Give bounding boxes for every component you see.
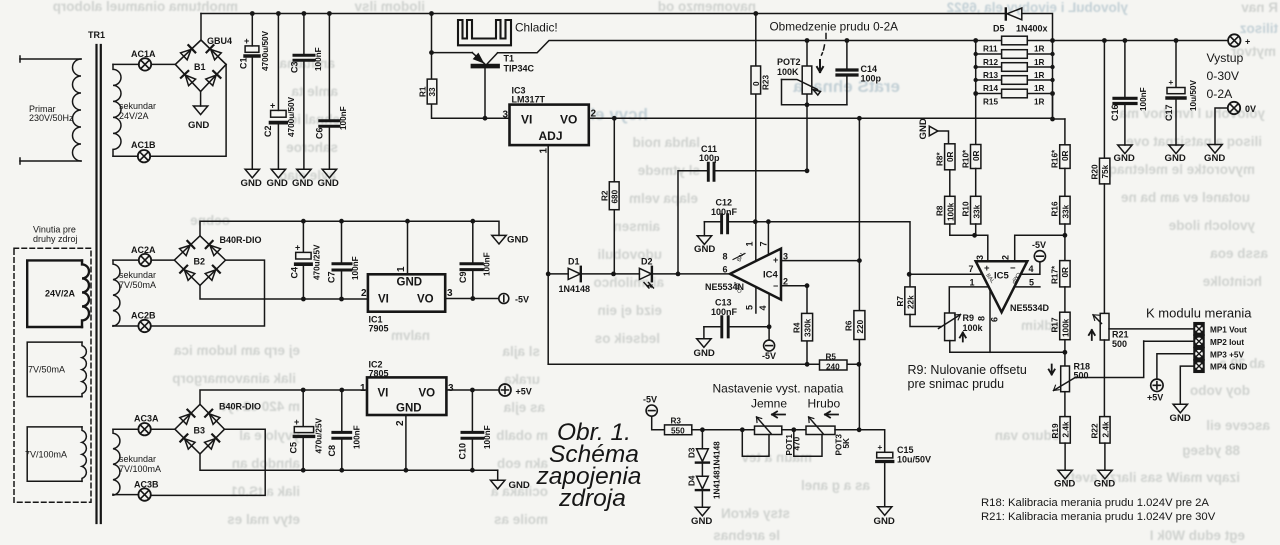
- capacitor C8 100nF: [327, 390, 362, 470]
- IC4 pin 1 stub: [745, 222, 756, 261]
- svg-text:R21: R21: [1112, 330, 1129, 340]
- wire R18 wiper line to MP2: [1144, 340, 1194, 342]
- ground end of B2 rail: [492, 235, 529, 246]
- ground at MP4: [1170, 404, 1191, 424]
- svg-text:D2: D2: [641, 257, 653, 267]
- svg-text:1: 1: [745, 241, 755, 246]
- capacitor C4 470u/25V: [290, 221, 322, 299]
- winding 7V/50mA: [27, 342, 86, 397]
- capacitor C2 4700u/50V: [263, 14, 296, 170]
- svg-text:C15: C15: [897, 445, 914, 455]
- svg-text:5: 5: [745, 305, 755, 310]
- wire top rail (unregulated +): [201, 13, 1006, 15]
- svg-text:C7: C7: [327, 271, 337, 283]
- svg-text:3: 3: [783, 252, 788, 262]
- svg-text:C10: C10: [458, 443, 468, 460]
- svg-text:GND: GND: [1114, 153, 1135, 164]
- svg-text:le arebnas: le arebnas: [713, 528, 780, 543]
- svg-text:100p: 100p: [699, 153, 720, 163]
- svg-text:3: 3: [448, 383, 454, 394]
- wire IC3 VO pin2 to output sense line: [589, 117, 1053, 119]
- svg-text:0V: 0V: [1245, 104, 1256, 114]
- svg-text:100nF: 100nF: [339, 106, 348, 130]
- svg-text:izapv maiW sas ilarzo avets: izapv maiW sas ilarzo avets: [1063, 470, 1240, 485]
- svg-text:C4: C4: [290, 267, 300, 279]
- wire IC3 ADJ pin1 column down: [547, 145, 549, 364]
- resistor R10 33k: [962, 169, 982, 225]
- wire shunt bottom to sense line: [1053, 94, 1065, 120]
- svg-text:eizd ej ein: eizd ej ein: [597, 303, 662, 318]
- svg-text:R17: R17: [1051, 317, 1060, 332]
- svg-text:D1: D1: [568, 257, 580, 267]
- svg-text:7: 7: [969, 264, 974, 274]
- svg-text:R15: R15: [983, 98, 998, 107]
- svg-text:nalvm: nalvm: [391, 328, 430, 343]
- svg-text:GND: GND: [267, 178, 288, 189]
- supply +5V at MP3: [1147, 379, 1163, 402]
- svg-text:aimsen: aimsen: [613, 219, 660, 234]
- svg-text:C13: C13: [715, 298, 732, 308]
- secondary winding sekundar 7V/50mA: [113, 260, 156, 326]
- svg-text:R6: R6: [845, 320, 854, 331]
- svg-text:NE5534D: NE5534D: [1010, 303, 1050, 313]
- resistor R12 1R: [976, 50, 1053, 67]
- svg-text:GND: GND: [241, 178, 262, 189]
- trimmer R9 100k: [910, 290, 1065, 352]
- transformer TR1 label: [88, 30, 105, 40]
- svg-text:R8: R8: [936, 205, 945, 216]
- svg-text:m obalb: m obalb: [496, 428, 548, 443]
- connector MP1: [1194, 323, 1247, 335]
- capacitor C6 100nF: [315, 14, 349, 170]
- svg-text:B40R-DIO: B40R-DIO: [220, 235, 262, 245]
- svg-text:1R: 1R: [1034, 58, 1045, 67]
- ground under C1: [241, 169, 262, 189]
- secondary winding sekundar 7V/100mA: [113, 429, 161, 495]
- svg-text:Chladic!: Chladic!: [515, 21, 558, 35]
- wire T1 collector to main rail: [498, 41, 1002, 53]
- svg-text:4700u/50V: 4700u/50V: [261, 30, 270, 71]
- svg-text:2.4k: 2.4k: [1101, 421, 1110, 437]
- supply terminal -5V (IC1 output): [499, 294, 529, 305]
- svg-text:GND: GND: [318, 178, 339, 189]
- svg-text:+: +: [1245, 37, 1250, 47]
- svg-text:100nF: 100nF: [314, 47, 323, 71]
- svg-text:GND: GND: [188, 120, 209, 131]
- caption R18/R21 kalibracia: [981, 497, 1216, 523]
- svg-text:GND: GND: [1054, 479, 1075, 490]
- resistor R22 2.4k: [1091, 417, 1111, 471]
- svg-text:doy vobo: doy vobo: [1190, 383, 1250, 398]
- svg-text:1R: 1R: [1034, 98, 1045, 107]
- svg-text:anutama: anutama: [279, 56, 335, 71]
- winding 24V/2A (second source): [27, 260, 89, 327]
- svg-text:7V/50mA: 7V/50mA: [119, 280, 156, 290]
- svg-text:33k: 33k: [972, 204, 981, 218]
- svg-text:GND: GND: [1094, 479, 1115, 490]
- svg-text:VI: VI: [378, 388, 389, 400]
- resistor R16* 0R: [1051, 119, 1071, 168]
- svg-text:2: 2: [395, 420, 406, 426]
- label Jemne: [751, 397, 787, 411]
- svg-text:MP1 Vout: MP1 Vout: [1210, 326, 1247, 335]
- svg-text:5: 5: [1029, 278, 1034, 288]
- caption R9 nulovanie offsetu: [908, 363, 1027, 391]
- svg-text:C3: C3: [290, 61, 300, 73]
- svg-text:1R: 1R: [1034, 45, 1045, 54]
- resistor R17 100k: [1051, 287, 1071, 340]
- svg-text:GND: GND: [1165, 153, 1186, 164]
- svg-text:8: 8: [723, 252, 728, 262]
- svg-text:+: +: [1169, 78, 1174, 87]
- svg-text:GND: GND: [694, 348, 715, 359]
- ground under C6: [318, 169, 339, 189]
- svg-text:C8: C8: [327, 445, 337, 457]
- svg-text:zdroja: zdroja: [558, 485, 626, 512]
- svg-text:500: 500: [1074, 371, 1089, 381]
- svg-text:R1: R1: [419, 86, 428, 97]
- svg-text:R23: R23: [762, 75, 771, 90]
- svg-text:R nav: R nav: [1241, 0, 1278, 15]
- svg-text:100nF: 100nF: [483, 425, 492, 449]
- svg-text:T1: T1: [504, 54, 515, 64]
- wire main rail to output terminal: [1027, 40, 1227, 42]
- svg-text:VI: VI: [521, 113, 532, 127]
- svg-text:egt edub W0k I: egt edub W0k I: [1150, 528, 1245, 543]
- connector MP4: [1194, 360, 1247, 372]
- svg-text:R10: R10: [962, 201, 971, 216]
- svg-text:C1: C1: [239, 57, 249, 69]
- sideways ground for R8*: [918, 118, 949, 144]
- svg-text:4: 4: [758, 305, 768, 310]
- svg-text:MP4 GND: MP4 GND: [1210, 363, 1247, 372]
- capacitor C5 470u/25V: [289, 390, 324, 470]
- output 0V terminal: [1228, 102, 1256, 114]
- ground for C13: [694, 327, 715, 359]
- regulator IC3 LM317T: [503, 86, 597, 154]
- svg-text:R17*: R17*: [1051, 265, 1060, 284]
- svg-text:1N4148: 1N4148: [713, 470, 722, 499]
- connector MP3: [1194, 348, 1244, 360]
- svg-text:GND: GND: [1170, 413, 1191, 424]
- svg-text:R13: R13: [983, 71, 998, 80]
- svg-text:1: 1: [970, 278, 975, 288]
- svg-text:MP2 Iout: MP2 Iout: [1210, 338, 1244, 347]
- svg-text:-5V: -5V: [762, 351, 776, 361]
- svg-text:C14: C14: [861, 64, 878, 74]
- label Obmedzenie prudu 0-2A: [770, 20, 899, 34]
- IC5 pin4 wire to -5V: [1021, 262, 1040, 274]
- svg-text:6: 6: [723, 265, 728, 275]
- svg-text:−: −: [773, 281, 778, 291]
- bridge rectifier B2 B40R-DIO: [174, 235, 261, 285]
- svg-text:1N4148: 1N4148: [713, 441, 722, 470]
- svg-text:ilisoq a natsiznat ove: ilisoq a natsiznat ove: [1126, 134, 1262, 149]
- op-amp IC4 NE5534N: [705, 249, 781, 300]
- svg-text:VO: VO: [560, 113, 577, 127]
- svg-text:7V/50mA: 7V/50mA: [28, 365, 65, 375]
- capacitor C17 10u/50V: [1164, 41, 1198, 146]
- svg-text:R9: Nulovanie offsetu: R9: Nulovanie offsetu: [908, 363, 1027, 377]
- svg-text:sekundar: sekundar: [119, 101, 156, 111]
- potentiometer POT2 100K: [777, 41, 847, 171]
- wire AC3A to B3: [151, 428, 175, 430]
- supply -5V at IC5 pin4: [1032, 240, 1046, 262]
- svg-text:R12: R12: [983, 58, 998, 67]
- resistor R4 330k: [793, 286, 813, 365]
- svg-text:TR1: TR1: [88, 30, 105, 40]
- resistor R16 33k: [1051, 168, 1071, 224]
- svg-text:TIP34C: TIP34C: [504, 64, 535, 74]
- svg-text:R16: R16: [1051, 201, 1060, 216]
- resistor R2 680: [601, 118, 620, 274]
- IC4 pin 7 stub: [759, 222, 769, 255]
- secondary winding sekundar 24V/2A: [113, 64, 156, 156]
- wire R16 bottom to IC5 pin2: [1015, 224, 1065, 261]
- ground under C17: [1165, 145, 1186, 164]
- svg-text:-5V: -5V: [515, 295, 529, 305]
- svg-text:yvoloch ilode: yvoloch ilode: [1168, 218, 1255, 233]
- wire MP4 to ground: [1180, 366, 1194, 404]
- resistor R23 0: [751, 14, 771, 222]
- svg-text:elapa velm: elapa velm: [629, 191, 698, 206]
- svg-text:R20: R20: [1090, 164, 1099, 179]
- IC4 pin 3 wire to current sense: [781, 118, 859, 261]
- svg-text:ledseik os: ledseik os: [595, 331, 660, 346]
- svg-text:0R: 0R: [1061, 267, 1070, 278]
- resistor R15 1R: [976, 89, 1053, 106]
- resistor R14 1R: [976, 76, 1053, 93]
- ground under C3: [292, 169, 313, 189]
- svg-text:MP3 +5V: MP3 +5V: [1210, 350, 1244, 359]
- svg-text:yvylo e al: yvylo e al: [239, 428, 300, 443]
- svg-text:Hrubo: Hrubo: [808, 397, 841, 411]
- svg-text:mnohtuma oinamuel aloborp: mnohtuma oinamuel aloborp: [53, 0, 238, 14]
- svg-text:0R: 0R: [1061, 150, 1070, 161]
- svg-text:3: 3: [503, 110, 509, 121]
- IC4 pin 4 wire: [758, 294, 769, 341]
- svg-text:POT2: POT2: [777, 57, 801, 67]
- svg-text:pre snimac prudu: pre snimac prudu: [908, 377, 1005, 391]
- svg-text:100nF: 100nF: [711, 207, 738, 217]
- label Nastavenie vyst. napatia: [713, 382, 844, 396]
- wire B1 top corner to top rail: [200, 14, 202, 41]
- svg-text:GND: GND: [396, 403, 422, 415]
- svg-text:Nastavenie vyst. napatia: Nastavenie vyst. napatia: [713, 382, 844, 396]
- svg-text:100p: 100p: [861, 74, 882, 84]
- svg-text:100k: 100k: [947, 202, 956, 221]
- connector MP2: [1194, 335, 1244, 347]
- svg-text:0R: 0R: [946, 151, 955, 162]
- diode D5 1N400x: [993, 8, 1053, 119]
- diode D3 1N4148: [688, 430, 722, 470]
- resistor R7 22k: [896, 274, 916, 314]
- svg-text:+: +: [244, 36, 249, 46]
- svg-text:+: +: [773, 255, 778, 265]
- svg-text:myvorotke le meletnaq: myvorotke le meletnaq: [1109, 162, 1255, 177]
- svg-text:VO: VO: [419, 388, 436, 400]
- svg-text:D4: D4: [688, 475, 697, 486]
- caption Obr. 1. Schema zapojenia zdroja: [536, 419, 642, 512]
- resistor R13 1R: [976, 63, 1053, 80]
- svg-text:1R: 1R: [1034, 71, 1045, 80]
- svg-text:Vinutia pre: Vinutia pre: [33, 225, 76, 235]
- svg-text:470u/25V: 470u/25V: [313, 244, 322, 280]
- dashed pointer to POT2: [817, 34, 826, 73]
- svg-text:3: 3: [975, 255, 985, 260]
- label K modulu merania: [1146, 306, 1252, 321]
- IC4 pin 2 wire: [781, 277, 807, 287]
- svg-text:2.4k: 2.4k: [1062, 421, 1071, 437]
- svg-text:100nF: 100nF: [483, 252, 492, 276]
- resistor R20 75k: [1090, 41, 1110, 184]
- terminal AC1A: [131, 49, 156, 71]
- svg-text:R19: R19: [1051, 423, 1060, 438]
- wire B2 right corner to AC2B: [151, 260, 265, 326]
- terminal AC3B: [134, 480, 159, 501]
- capacitor C14 100p: [837, 41, 882, 105]
- svg-text:GND: GND: [1204, 153, 1225, 164]
- svg-text:B40R-DIO: B40R-DIO: [219, 402, 261, 412]
- svg-text:C6: C6: [315, 127, 325, 139]
- capacitor C13 100nF: [704, 298, 769, 337]
- resistor R1 33: [419, 53, 510, 119]
- svg-text:C5: C5: [289, 442, 299, 454]
- IC5 pin1 wire to R9: [949, 287, 989, 313]
- dashed box Vinutia pre druhy zdroj: [14, 248, 91, 502]
- svg-text:100nF: 100nF: [351, 256, 360, 280]
- svg-text:GND: GND: [694, 244, 715, 255]
- svg-text:100k: 100k: [1062, 318, 1071, 337]
- bridge rectifier B3 B40R-DIO: [175, 402, 261, 454]
- svg-text:680: 680: [610, 189, 619, 203]
- svg-text:+5V: +5V: [1147, 393, 1163, 403]
- label Chladic!: [515, 21, 558, 35]
- svg-text:33: 33: [428, 87, 437, 97]
- svg-text:220: 220: [856, 319, 865, 333]
- terminal AC3A: [134, 414, 159, 436]
- svg-text:2: 2: [1001, 255, 1011, 260]
- svg-text:moile as: moile as: [494, 512, 548, 527]
- svg-text:C17: C17: [1164, 104, 1174, 121]
- ground under R22: [1094, 470, 1115, 489]
- wire top-rail drop to T1 emitter: [431, 14, 433, 53]
- svg-text:uotanel ev am ba ne: uotanel ev am ba ne: [1120, 190, 1250, 205]
- svg-text:C16: C16: [1110, 104, 1120, 121]
- svg-text:sl ajla: sl ajla: [502, 344, 540, 359]
- svg-text:GND: GND: [507, 235, 528, 246]
- capacitor C9 100nF: [458, 221, 492, 298]
- wire IC2 VO to +5V terminal: [446, 389, 499, 391]
- terminal AC2A: [131, 245, 156, 266]
- svg-text:R2: R2: [601, 190, 610, 201]
- svg-text:Obmedzenie prudu 0-2A: Obmedzenie prudu 0-2A: [770, 20, 899, 34]
- svg-text:GND: GND: [918, 118, 929, 139]
- svg-text:GND: GND: [509, 480, 530, 491]
- svg-text:75k: 75k: [1101, 164, 1110, 178]
- wire AC1B to B1 right corner: [150, 64, 226, 156]
- svg-text:R22: R22: [1091, 423, 1100, 438]
- resistor R10* 0R: [962, 94, 982, 169]
- label Hrubo: [808, 397, 841, 411]
- svg-text:hcintolke: hcintolke: [1202, 274, 1262, 289]
- supply -5V at IC4 pin4: [762, 340, 776, 361]
- svg-text:0-30V: 0-30V: [1207, 69, 1240, 83]
- svg-text:1N4148: 1N4148: [559, 284, 591, 294]
- svg-text:4: 4: [1029, 264, 1034, 274]
- wire B3 bottom to GND line: [200, 454, 498, 470]
- svg-text:240: 240: [826, 363, 840, 372]
- ground under R19: [1054, 470, 1075, 489]
- svg-text:GND: GND: [397, 277, 423, 289]
- svg-text:24V/2A: 24V/2A: [119, 111, 149, 121]
- svg-text:C9: C9: [458, 271, 468, 283]
- svg-text:R7: R7: [896, 296, 905, 307]
- transistor T1 TIP34C: [432, 53, 535, 119]
- resistor R11 1R: [983, 36, 1045, 53]
- svg-text:0R: 0R: [972, 150, 981, 161]
- svg-text:R11: R11: [983, 45, 998, 54]
- ground under 0V: [1204, 145, 1225, 165]
- svg-text:1: 1: [396, 266, 407, 272]
- svg-text:amle ta: amle ta: [291, 84, 338, 99]
- svg-text:sekundar: sekundar: [119, 270, 156, 280]
- regulator IC2 7805: [360, 360, 454, 427]
- wire R21 wiper to MP1: [1109, 328, 1194, 330]
- resistor R5 240: [548, 353, 859, 372]
- svg-text:0-2A: 0-2A: [1207, 87, 1234, 101]
- svg-text:5K: 5K: [842, 438, 851, 449]
- svg-text:7V/100mA: 7V/100mA: [25, 450, 67, 460]
- svg-text:stsy ekroN: stsy ekroN: [721, 506, 790, 521]
- wire B3 top to IC2 VI: [200, 390, 367, 404]
- wire AC1A to B1 left corner: [151, 63, 175, 65]
- IC5 pin5 stub: [1015, 286, 1040, 288]
- svg-text:R4: R4: [793, 322, 802, 333]
- svg-text:B2: B2: [194, 257, 206, 267]
- svg-text:ilodom ilsv: ilodom ilsv: [354, 0, 425, 14]
- capacitor C11 100p: [678, 144, 807, 274]
- ground under C15: [874, 507, 895, 527]
- capacitor C7 100nF: [327, 221, 361, 299]
- svg-text:550: 550: [671, 427, 685, 436]
- svg-text:IC5: IC5: [994, 271, 1010, 282]
- svg-text:1N400x: 1N400x: [1016, 24, 1048, 34]
- capacitor C16 100nF: [1110, 41, 1148, 146]
- resistor R6 220: [845, 261, 865, 430]
- svg-text:2: 2: [361, 288, 367, 299]
- svg-text:100K: 100K: [777, 67, 799, 77]
- svg-text:VO: VO: [417, 294, 434, 306]
- svg-text:7: 7: [759, 241, 769, 246]
- svg-text:VI: VI: [378, 294, 389, 306]
- capacitor C1 4700u/50V: [239, 14, 271, 170]
- svg-text:lahda noid: lahda noid: [633, 135, 701, 150]
- wire R8/R10 bottoms to IC5 pin3: [950, 224, 988, 261]
- svg-text:24V/2A: 24V/2A: [45, 289, 76, 299]
- bridge rectifier B1 GBU4: [175, 36, 232, 92]
- svg-text:1R: 1R: [1034, 84, 1045, 93]
- supply terminal +5V (IC2 output): [499, 384, 532, 397]
- svg-text:R10*: R10*: [962, 149, 971, 168]
- IC4 pin 5 stub: [745, 287, 756, 313]
- svg-text:as a g anel: as a g anel: [801, 478, 870, 493]
- svg-text:R5: R5: [826, 353, 837, 362]
- diode D1 1N4148: [559, 257, 591, 295]
- svg-text:K modulu merania: K modulu merania: [1146, 306, 1252, 321]
- svg-text:470u/25V: 470u/25V: [315, 417, 324, 453]
- svg-text:R21: Kalibracia merania prudu: R21: Kalibracia merania prudu 1.024V pre…: [981, 511, 1216, 523]
